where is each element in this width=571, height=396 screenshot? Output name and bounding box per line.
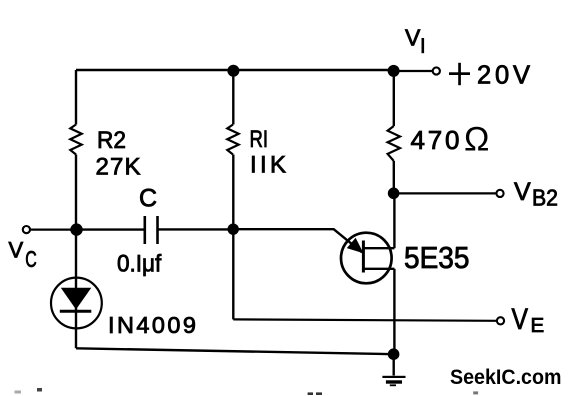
wire left column through diode to bottom bus <box>75 230 77 349</box>
junction dot Vc node <box>70 223 82 235</box>
svg-text:E: E <box>531 314 545 337</box>
svg-text:0.Iμf: 0.Iμf <box>117 251 162 278</box>
wire Vc node to capacitor <box>76 228 144 230</box>
svg-text:C: C <box>25 246 37 272</box>
wire V1 to +20V terminal <box>394 70 432 72</box>
junction dot top middle (R1 top) <box>227 65 239 77</box>
junction dot Vb2 <box>388 188 400 200</box>
diode D1 anode triangle <box>61 288 92 310</box>
svg-text:C: C <box>139 185 157 213</box>
node label Vc <box>9 238 37 273</box>
wire emitter (cap node to Q1) <box>233 229 362 252</box>
svg-text:V: V <box>512 303 529 336</box>
svg-text:20V: 20V <box>477 62 530 90</box>
wire middle column upper (top bus to R1) <box>232 70 234 125</box>
svg-text:V: V <box>514 178 531 206</box>
svg-text:R2: R2 <box>97 127 126 154</box>
svg-text:470: 470 <box>411 125 460 155</box>
wire top bus (V1 node) <box>76 69 394 71</box>
transistor Q1 (UJT) circle <box>341 233 392 284</box>
wire capacitor to middle node <box>158 228 234 230</box>
node label Ve <box>512 303 545 337</box>
diode D1 circle <box>51 278 102 329</box>
svg-text:Ω: Ω <box>464 121 489 159</box>
ground <box>382 354 405 386</box>
terminal +20V <box>433 67 440 74</box>
wire Vb2 node down to base-two lead <box>393 193 395 248</box>
wire middle column lower (cap node down) <box>232 229 234 319</box>
scan artifacts bottom edge <box>15 388 479 395</box>
resistor R2 <box>70 125 81 155</box>
capacitor C plates <box>145 216 158 244</box>
transistor Q1 base-one lead <box>363 268 394 270</box>
transistor Q1 emitter arrowhead <box>347 238 364 254</box>
wire Vc terminal to junction <box>30 229 76 231</box>
wire left column (R2 to Vc node) <box>75 155 77 230</box>
svg-text:RI: RI <box>250 126 269 153</box>
svg-text:B2: B2 <box>532 184 558 210</box>
label +20V <box>449 62 530 90</box>
resistor 470 ohm <box>388 126 400 161</box>
wire right column upper (V1 to 470 ohm) <box>393 71 395 126</box>
svg-text:SeekIC.com: SeekIC.com <box>450 366 562 389</box>
wire Ve horizontal (to Ve terminal, crosses right column) <box>233 319 497 320</box>
node label Vb2 <box>514 178 558 210</box>
junction dot V1 <box>388 65 400 77</box>
svg-text:IN4009: IN4009 <box>108 312 196 338</box>
transistor Q1 base bar <box>362 241 365 273</box>
svg-text:5E35: 5E35 <box>404 241 470 275</box>
wire middle column (R1 to capacitor node) <box>232 155 234 230</box>
resistor R1 <box>227 125 238 155</box>
terminal Ve <box>497 317 504 324</box>
terminal Vc <box>23 226 30 233</box>
transistor Q1 base-two lead <box>363 247 394 249</box>
svg-text:V: V <box>405 25 421 51</box>
terminal Vb2 <box>496 190 503 197</box>
svg-text:V: V <box>9 238 24 263</box>
wire bottom bus <box>76 348 394 354</box>
junction dot capacitor right node <box>228 224 239 235</box>
wire right column lower (base-one to ground node) <box>393 269 395 354</box>
node label V1 <box>405 25 424 54</box>
diode D1 cathode bar <box>60 310 92 313</box>
wire left column upper (top bus to R2) <box>75 70 77 125</box>
wire 470 ohm to Vb2 node <box>393 161 395 193</box>
junction dot ground node <box>388 348 400 360</box>
svg-text:27K: 27K <box>96 154 141 181</box>
wire Vb2 node to terminal <box>394 192 496 194</box>
